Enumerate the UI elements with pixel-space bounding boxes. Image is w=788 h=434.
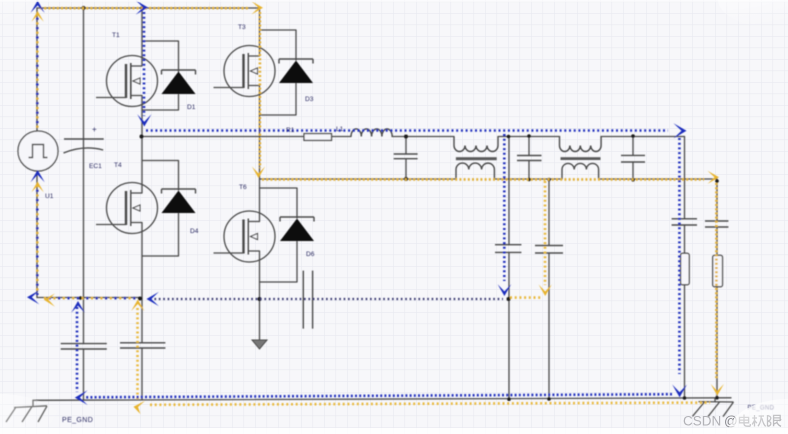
svg-text:L1: L1 bbox=[336, 126, 344, 133]
svg-text:D1: D1 bbox=[187, 104, 196, 111]
svg-text:EC1: EC1 bbox=[89, 163, 102, 170]
svg-text:T4: T4 bbox=[114, 162, 122, 169]
svg-text:D6: D6 bbox=[306, 251, 315, 258]
svg-text:T1: T1 bbox=[112, 32, 120, 39]
svg-text:D3: D3 bbox=[305, 96, 314, 103]
svg-text:R1: R1 bbox=[286, 127, 295, 134]
svg-text:D4: D4 bbox=[190, 228, 199, 235]
svg-text:+: + bbox=[92, 125, 97, 134]
svg-text:T6: T6 bbox=[239, 184, 247, 191]
svg-text:CSDN: CSDN bbox=[683, 414, 721, 429]
svg-text:U1: U1 bbox=[45, 193, 54, 200]
svg-text:T3: T3 bbox=[238, 24, 246, 31]
